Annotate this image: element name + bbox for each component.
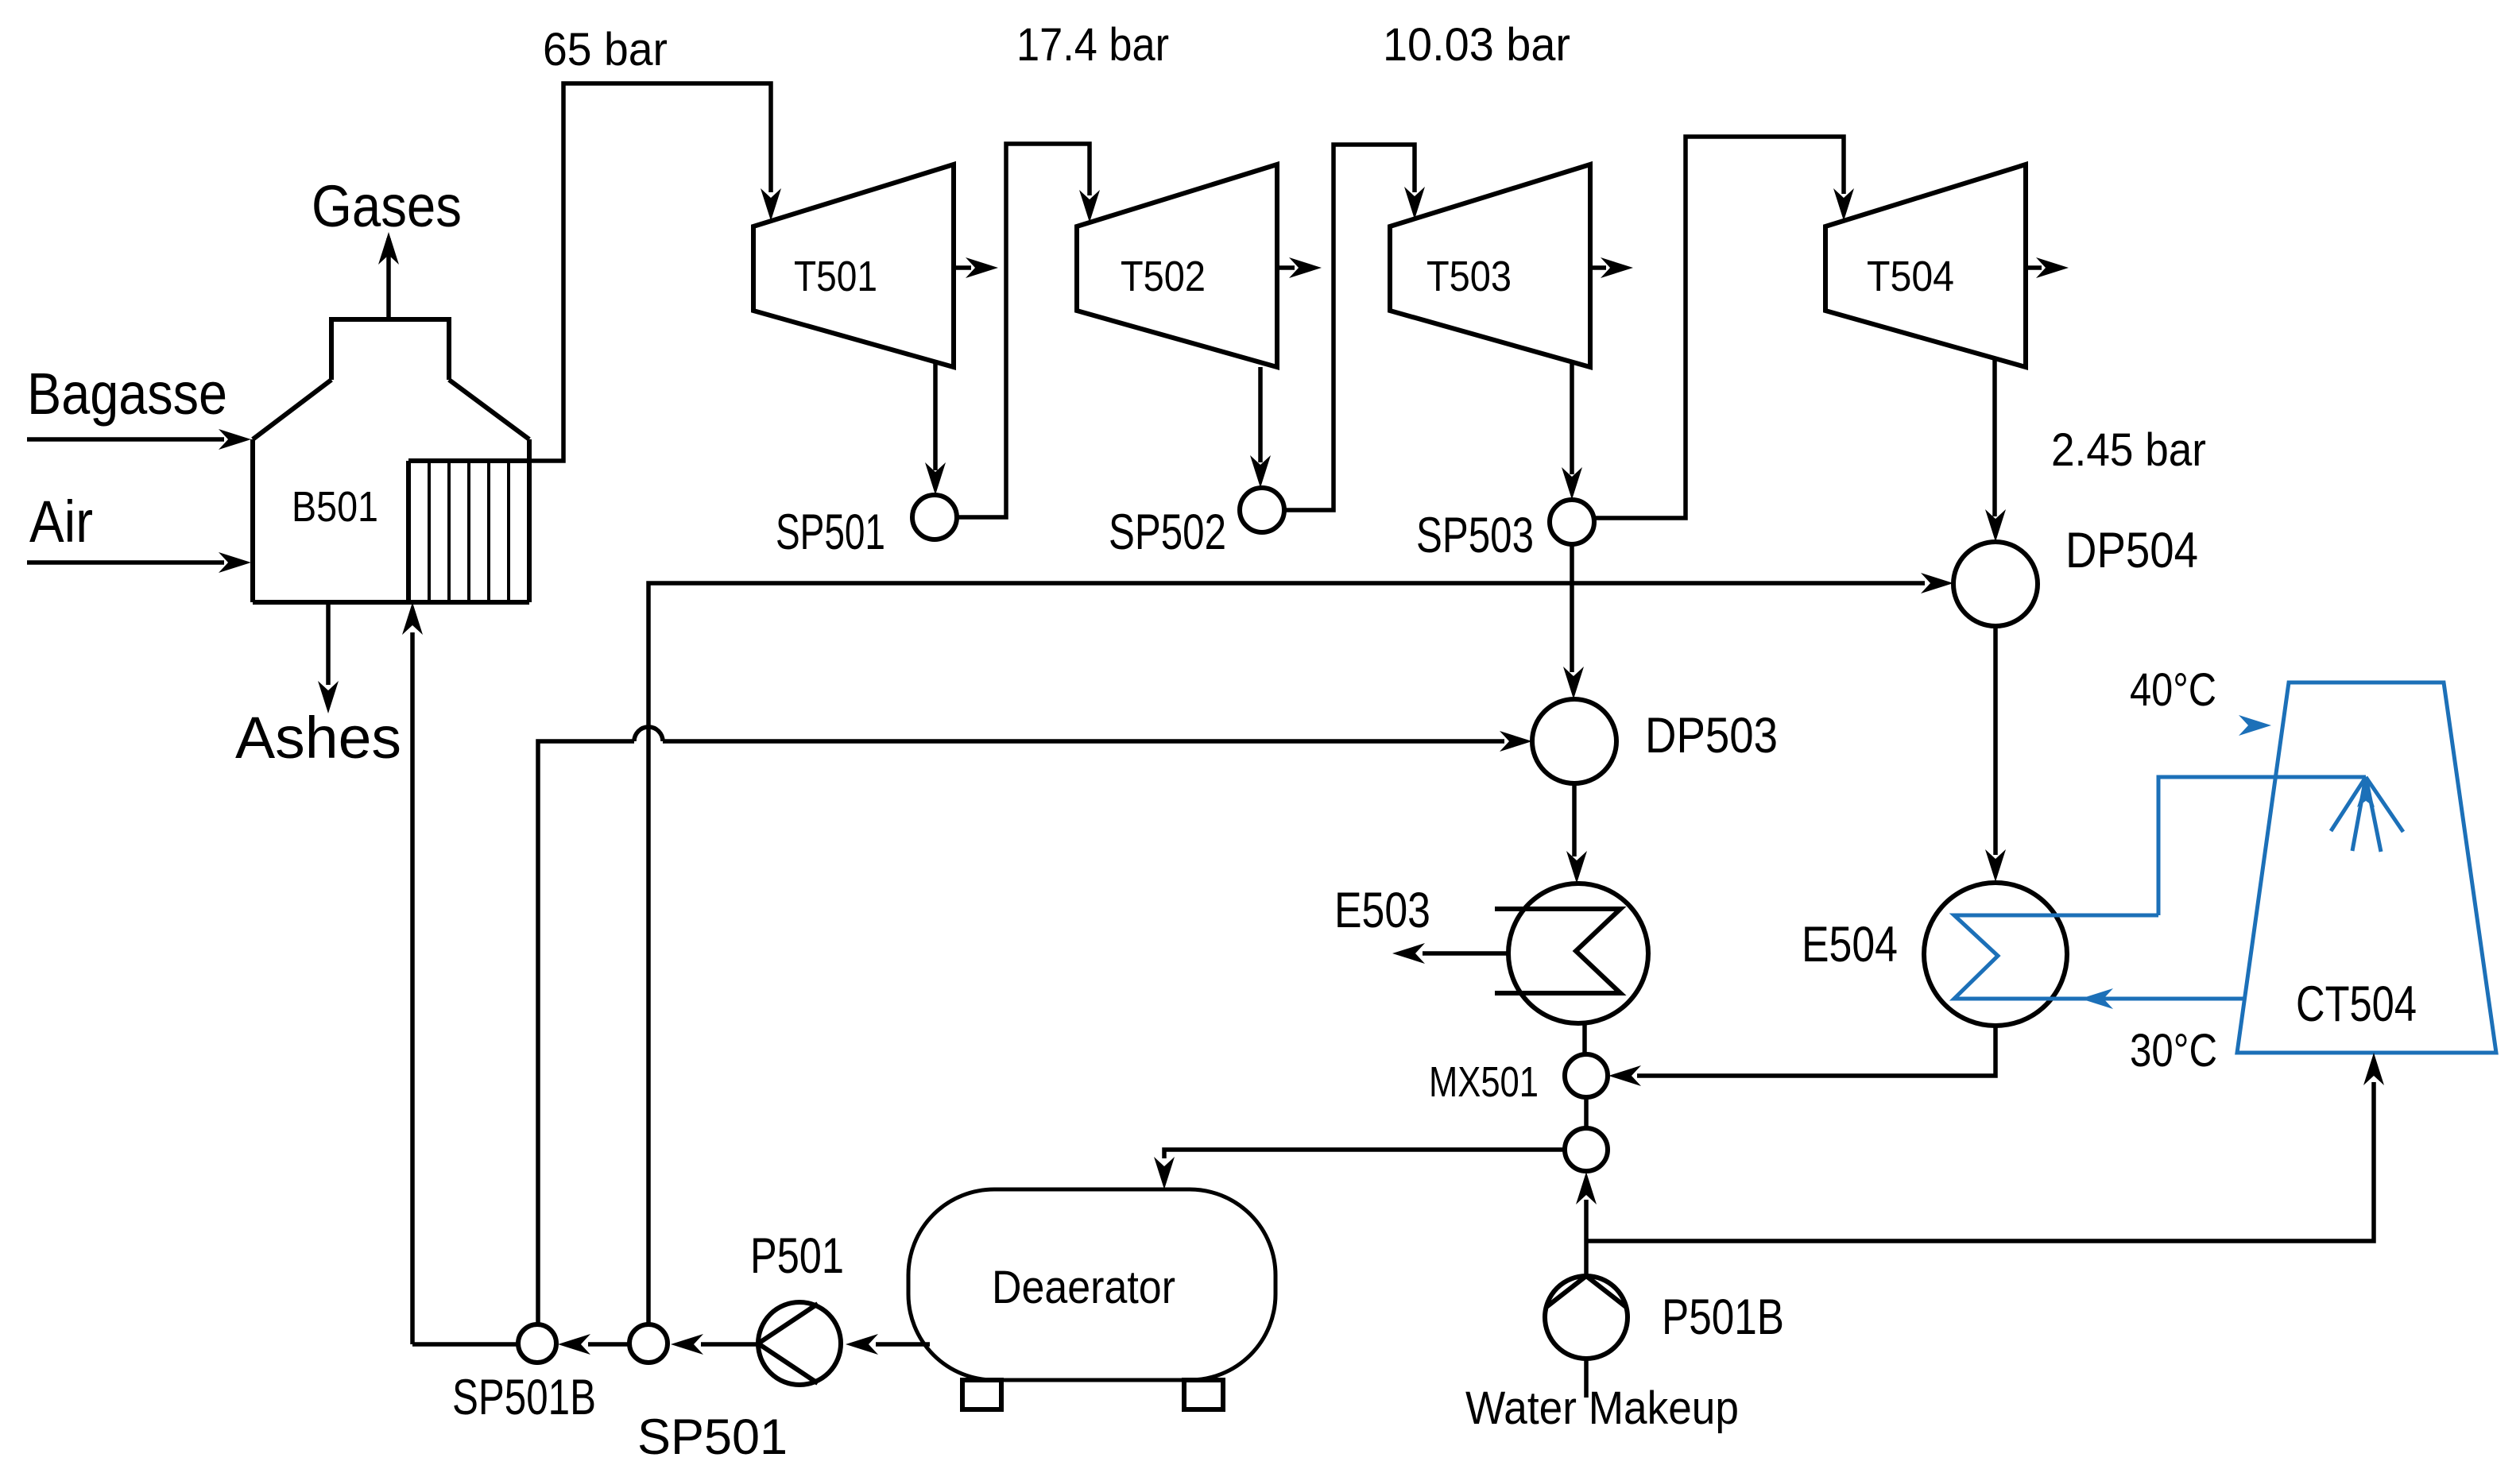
label DP504 <box>2065 523 2198 578</box>
stream label Ashes <box>235 705 401 771</box>
label SP501 feedwater <box>637 1409 788 1465</box>
turbine T504 <box>1825 164 2026 367</box>
wire SP501B riser to DP503 feed line with hop <box>538 727 1532 1324</box>
boiler B501 body <box>253 319 529 602</box>
svg-text:E504: E504 <box>1802 917 1898 972</box>
svg-text:T502: T502 <box>1121 253 1206 300</box>
wire DP503 to E503 <box>1566 784 1587 883</box>
label P501B <box>1662 1289 1784 1345</box>
svg-text:DP504: DP504 <box>2065 523 2198 578</box>
label E503 <box>1334 883 1430 938</box>
wire E504 bottom to MX501 <box>1608 1026 1995 1086</box>
flow direction arrowhead 40C <box>2239 715 2271 736</box>
svg-text:SP501: SP501 <box>776 505 885 560</box>
stream label Air <box>29 489 93 555</box>
wire P501B discharge <box>1584 1241 1589 1276</box>
splitter SP503 <box>1550 500 1594 544</box>
splitter SP501B <box>518 1324 556 1363</box>
svg-text:Deaerator: Deaerator <box>992 1262 1175 1313</box>
svg-text:DP503: DP503 <box>1645 708 1778 764</box>
label 2.45 bar <box>2051 424 2206 476</box>
svg-text:P501: P501 <box>750 1228 844 1284</box>
wire P501B suction <box>1584 1359 1589 1398</box>
stream label Bagasse <box>27 361 227 427</box>
label CT504 <box>2296 976 2417 1032</box>
coil E504 (blue) + 30C return from CT504 <box>1954 915 2244 1009</box>
svg-text:SP502: SP502 <box>1109 505 1226 560</box>
cooling tower CT504 <box>2237 682 2496 1053</box>
label T502 <box>1121 253 1206 300</box>
svg-text:17.4 bar: 17.4 bar <box>1016 19 1169 71</box>
wire SP501 to SP501B <box>558 1334 629 1355</box>
exchanger E503 <box>1495 883 1648 1023</box>
splitter SP501 <box>912 495 957 539</box>
stream label Gases <box>312 173 462 239</box>
wire SP501B to boiler riser <box>412 1342 518 1347</box>
boiler B501 tube bank (hatched box) <box>408 461 529 602</box>
label E504 <box>1802 917 1898 972</box>
turbine T503 <box>1390 164 1590 367</box>
wire DP504 to E504 <box>1985 626 2006 882</box>
vessel Deaerator <box>908 1189 1275 1409</box>
wire SP503 to T504 inlet link <box>1594 137 1854 518</box>
wire Ashes outlet arrow <box>318 602 339 713</box>
label DP503 <box>1645 708 1778 764</box>
junction node below MX501 <box>1565 1128 1608 1171</box>
svg-text:P501B: P501B <box>1662 1289 1784 1345</box>
svg-text:T501: T501 <box>794 253 877 300</box>
wire T504 exhaust to DP504 (2.45 bar) <box>1985 358 2006 542</box>
wire T503 extraction to SP503 <box>1562 361 1582 500</box>
wire 40C supply E504 to CT504 spray <box>2158 777 2366 915</box>
pump P501 <box>758 1302 841 1385</box>
spray nozzle in CT504 <box>2331 777 2403 852</box>
label SP501B <box>452 1370 596 1425</box>
svg-text:MX501: MX501 <box>1429 1058 1539 1106</box>
svg-text:10.03 bar: 10.03 bar <box>1383 19 1570 71</box>
svg-text:Ashes: Ashes <box>235 705 401 771</box>
svg-text:40°C: 40°C <box>2130 664 2216 716</box>
exchanger E504 <box>1924 883 2067 1026</box>
svg-text:30°C: 30°C <box>2130 1025 2217 1077</box>
wire T501 extraction to SP501 <box>925 361 946 495</box>
label 10.03 bar <box>1383 19 1570 71</box>
label T501 <box>794 253 877 300</box>
wire P501 to SP501 <box>671 1334 758 1355</box>
wire E503 process outlet arrow <box>1392 943 1508 964</box>
svg-text:Bagasse: Bagasse <box>27 361 227 427</box>
wire T501 shaft-exit arrow <box>954 257 998 278</box>
svg-text:B501: B501 <box>292 483 378 531</box>
mixer DP503 <box>1532 699 1616 783</box>
turbine T502 <box>1077 164 1277 367</box>
label MX501 <box>1429 1058 1539 1106</box>
svg-text:65 bar: 65 bar <box>543 24 668 75</box>
label 17.4 bar <box>1016 19 1169 71</box>
wire Bagasse feed arrow <box>27 429 251 450</box>
wire Air feed arrow <box>27 552 251 573</box>
wire makeup branch to CT504 <box>1586 1053 2384 1241</box>
pump P501B <box>1545 1276 1628 1359</box>
label SP501 <box>776 505 885 560</box>
svg-text:T503: T503 <box>1426 253 1512 300</box>
wire junction to deaerator inlet <box>1154 1150 1565 1189</box>
label 65 bar <box>543 24 668 75</box>
mixer DP504 <box>1953 542 2038 626</box>
wire SP503 down to DP503 <box>1563 544 1584 699</box>
turbine T501 <box>753 164 954 367</box>
svg-text:SP501: SP501 <box>637 1409 788 1465</box>
label 30°C <box>2130 1025 2217 1077</box>
label 40°C <box>2130 664 2216 716</box>
splitter SP501 (feedwater) <box>629 1324 668 1363</box>
wire T503 shaft-exit arrow <box>1590 257 1633 278</box>
label Deaerator <box>992 1262 1175 1313</box>
svg-text:CT504: CT504 <box>2296 976 2417 1032</box>
svg-text:T504: T504 <box>1867 253 1954 300</box>
label SP502 <box>1109 505 1226 560</box>
wire deaerator to P501 <box>846 1334 930 1355</box>
splitter SP502 <box>1240 488 1284 532</box>
wire SP501(B) riser to DP504 feed line <box>648 573 1953 1324</box>
svg-text:SP503: SP503 <box>1416 508 1534 563</box>
wire MX501 to junction <box>1584 1097 1589 1129</box>
label P501 <box>750 1228 844 1284</box>
svg-text:E503: E503 <box>1334 883 1430 938</box>
svg-text:Gases: Gases <box>312 173 462 239</box>
wire boiler feedwater riser + arrow into boiler <box>402 602 423 1344</box>
wire T502 shaft-exit arrow <box>1277 257 1322 278</box>
svg-text:SP501B: SP501B <box>452 1370 596 1425</box>
label T504 <box>1867 253 1954 300</box>
label B501 <box>292 483 378 531</box>
wire T504 shaft-exit arrow <box>2026 257 2069 278</box>
wire T502 extraction to SP502 <box>1250 367 1271 488</box>
stream label Water Makeup <box>1465 1382 1739 1434</box>
svg-text:Air: Air <box>29 489 93 555</box>
wire water makeup riser into junction <box>1576 1172 1597 1241</box>
label T503 <box>1426 253 1512 300</box>
wire E503 to MX501 <box>1582 1023 1587 1055</box>
svg-text:Water Makeup: Water Makeup <box>1465 1382 1739 1434</box>
wire Gases outlet arrow <box>378 232 399 319</box>
label SP503 <box>1416 508 1534 563</box>
wire steam main 65 bar (boiler to T501) <box>529 83 781 461</box>
wire SP501 to T502 inlet (17.4 bar link) <box>957 144 1100 517</box>
wire SP502 to T503 inlet (10.03 bar link) <box>1284 145 1425 510</box>
svg-text:2.45 bar: 2.45 bar <box>2051 424 2206 476</box>
mixer MX501 <box>1565 1054 1608 1097</box>
